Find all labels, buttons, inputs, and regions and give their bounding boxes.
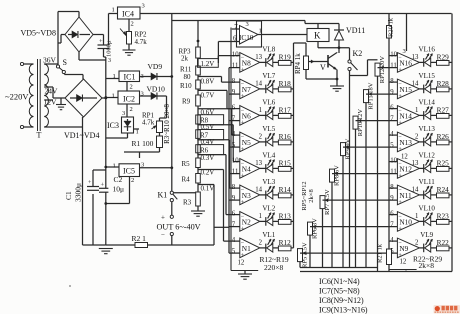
svg-text:5: 5: [390, 142, 394, 149]
svg-text:14: 14: [412, 80, 419, 87]
svg-text:R29: R29: [437, 53, 450, 62]
svg-text:R22: R22: [437, 238, 450, 247]
svg-text:R23: R23: [437, 212, 450, 221]
svg-text:4: 4: [232, 237, 236, 244]
svg-text:12: 12: [400, 259, 407, 266]
svg-text:R28: R28: [437, 79, 450, 88]
svg-text:K1: K1: [158, 191, 168, 200]
svg-text:3: 3: [122, 110, 125, 117]
svg-text:2: 2: [259, 239, 263, 246]
svg-text:VL3: VL3: [262, 178, 275, 186]
svg-text:13: 13: [255, 160, 262, 167]
svg-text:RP11 18V: RP11 18V: [368, 82, 375, 109]
svg-text:4: 4: [232, 131, 236, 138]
svg-text:VL6: VL6: [262, 98, 275, 106]
svg-text:7: 7: [232, 221, 236, 228]
svg-text:R5: R5: [182, 160, 191, 168]
svg-text:5: 5: [232, 142, 236, 149]
svg-text:1: 1: [415, 107, 418, 114]
svg-text:VL5: VL5: [262, 125, 275, 133]
svg-text:−: −: [241, 214, 245, 220]
svg-text:C1: C1: [64, 191, 73, 200]
svg-text:R25: R25: [437, 159, 450, 168]
svg-text:VD11: VD11: [346, 26, 365, 35]
svg-text:R16: R16: [279, 132, 292, 141]
svg-text:VL12: VL12: [419, 151, 436, 159]
svg-text:2: 2: [130, 84, 133, 91]
svg-text:R3: R3: [183, 199, 192, 207]
svg-text:0.1V: 0.1V: [201, 185, 215, 193]
svg-text:R15: R15: [279, 159, 292, 168]
svg-text:0.8V: 0.8V: [201, 78, 215, 86]
svg-text:−: −: [241, 135, 245, 141]
svg-text:RP6 3V: RP6 3V: [312, 218, 319, 239]
svg-text:R19: R19: [279, 53, 292, 62]
svg-text:RP5 2.5V: RP5 2.5V: [302, 242, 309, 268]
svg-text:11: 11: [390, 62, 397, 69]
svg-text:8: 8: [232, 184, 236, 191]
svg-text:IC1: IC1: [124, 73, 136, 82]
svg-text:1: 1: [259, 107, 262, 114]
svg-text:R2 1: R2 1: [132, 234, 147, 243]
svg-text:VL8: VL8: [262, 45, 275, 53]
svg-text:14: 14: [412, 186, 419, 193]
svg-text:R1 100: R1 100: [132, 139, 154, 148]
svg-text:RP12 20V: RP12 20V: [379, 56, 386, 84]
svg-text:K: K: [314, 31, 321, 41]
svg-text:2: 2: [259, 133, 263, 140]
svg-text:IC10: IC10: [239, 34, 254, 42]
svg-text:4.7k: 4.7k: [135, 38, 148, 46]
svg-text:T: T: [37, 131, 42, 140]
svg-text:3: 3: [403, 48, 406, 55]
svg-text:−: −: [241, 55, 245, 61]
svg-text:RP4 1k: RP4 1k: [294, 53, 302, 74]
svg-text:2k×8: 2k×8: [419, 261, 435, 270]
svg-text:14: 14: [255, 186, 262, 193]
svg-text:2: 2: [415, 133, 419, 140]
svg-text:R12: R12: [279, 238, 292, 247]
svg-text:1: 1: [112, 93, 115, 100]
svg-text:2: 2: [131, 21, 134, 28]
svg-text:2: 2: [131, 177, 134, 184]
svg-text:7: 7: [390, 221, 394, 228]
svg-text:+: +: [241, 227, 245, 233]
svg-text:11: 11: [390, 168, 397, 175]
svg-text:+: +: [241, 121, 245, 127]
svg-text:2k×8: 2k×8: [308, 189, 315, 202]
svg-text:+: +: [241, 253, 245, 259]
svg-text:VL16: VL16: [419, 45, 436, 53]
svg-text:0.7V: 0.7V: [201, 92, 215, 100]
svg-text:C2: C2: [114, 175, 123, 184]
svg-text:0.6V: 0.6V: [201, 108, 215, 116]
svg-text:1.2V: 1.2V: [201, 60, 215, 68]
svg-text:R21 1k: R21 1k: [377, 243, 384, 263]
svg-text:VD1~VD4: VD1~VD4: [64, 131, 99, 140]
svg-text:R27: R27: [437, 106, 450, 115]
svg-text:9: 9: [232, 195, 236, 202]
svg-text:VL14: VL14: [419, 98, 436, 106]
svg-text:5: 5: [232, 248, 236, 255]
svg-text:VD5~VD8: VD5~VD8: [21, 29, 56, 38]
svg-text:R3~R10 20×8: R3~R10 20×8: [163, 104, 171, 144]
svg-text:R14: R14: [279, 185, 292, 194]
svg-text:13: 13: [412, 54, 419, 61]
svg-text:6: 6: [232, 211, 236, 218]
svg-text:R4: R4: [182, 176, 191, 184]
svg-text:VL10: VL10: [419, 204, 436, 212]
svg-text:9: 9: [232, 89, 236, 96]
svg-text:RP8 6V: RP8 6V: [334, 165, 341, 186]
svg-text:1: 1: [415, 213, 418, 220]
svg-text:−: −: [241, 108, 245, 114]
svg-text:220×8: 220×8: [264, 263, 283, 272]
svg-text:VL15: VL15: [419, 72, 436, 80]
svg-text:K2: K2: [353, 49, 363, 58]
svg-text:9: 9: [390, 195, 394, 202]
svg-text:1: 1: [113, 73, 116, 80]
svg-text:+: +: [241, 174, 245, 180]
svg-text:2: 2: [130, 106, 133, 113]
svg-text:IC7(N5~N8): IC7(N5~N8): [319, 287, 360, 296]
svg-text:11: 11: [232, 168, 239, 175]
svg-text:12: 12: [238, 260, 245, 267]
svg-text:1: 1: [113, 163, 116, 170]
svg-text:−: −: [241, 82, 245, 88]
svg-text:VD9: VD9: [148, 62, 163, 71]
svg-text:VL11: VL11: [419, 178, 436, 186]
svg-text:1: 1: [112, 7, 115, 14]
svg-text:+: +: [161, 214, 165, 222]
svg-text:+: +: [101, 182, 105, 189]
svg-text:VL7: VL7: [262, 72, 275, 80]
svg-text:4.7k: 4.7k: [142, 119, 155, 127]
svg-text:+: +: [241, 68, 245, 74]
svg-text:8: 8: [232, 78, 236, 85]
svg-text:VL4: VL4: [262, 151, 275, 159]
svg-text:IC8(N9~N12): IC8(N9~N12): [319, 296, 364, 305]
svg-text:VL2: VL2: [262, 204, 275, 212]
svg-text:IC2: IC2: [123, 95, 135, 104]
svg-text:IC3: IC3: [107, 121, 119, 130]
svg-text:7: 7: [390, 115, 394, 122]
svg-text:12: 12: [401, 154, 408, 161]
svg-text:IC4: IC4: [122, 10, 134, 19]
svg-text:7: 7: [234, 24, 238, 31]
svg-text:1: 1: [259, 213, 262, 220]
svg-text:13: 13: [255, 54, 262, 61]
svg-text:80: 80: [184, 73, 192, 81]
svg-text:IC9(N13~N16): IC9(N13~N16): [319, 306, 368, 314]
svg-text:3: 3: [246, 21, 249, 28]
svg-text:9: 9: [390, 89, 394, 96]
svg-text:V: V: [320, 63, 326, 72]
svg-text:S: S: [63, 58, 67, 67]
svg-text:+: +: [241, 94, 245, 100]
svg-text:14: 14: [255, 80, 262, 87]
svg-text:RP5~RP12: RP5~RP12: [301, 181, 308, 210]
svg-text:−: −: [241, 161, 245, 167]
svg-text:+: +: [241, 200, 245, 206]
svg-text:2: 2: [415, 239, 419, 246]
svg-text:R13: R13: [279, 212, 292, 221]
svg-text:−: −: [241, 188, 245, 194]
svg-text:24V: 24V: [45, 87, 59, 96]
svg-text:3: 3: [142, 3, 145, 10]
svg-text:VL9: VL9: [420, 231, 433, 239]
svg-text:+: +: [99, 38, 103, 45]
svg-text:R24: R24: [437, 185, 450, 194]
svg-text:10μ: 10μ: [113, 185, 125, 194]
svg-text:13: 13: [412, 160, 419, 167]
svg-text:10: 10: [232, 158, 239, 165]
svg-text:R26: R26: [437, 132, 450, 141]
svg-text:R10: R10: [180, 82, 192, 90]
svg-text:3: 3: [108, 58, 111, 64]
svg-text:12V: 12V: [44, 98, 58, 107]
svg-text:R18: R18: [279, 79, 292, 88]
svg-text:IC5: IC5: [123, 167, 135, 176]
svg-text:~220V: ~220V: [5, 92, 29, 102]
svg-text:2k: 2k: [181, 55, 189, 63]
svg-text:−: −: [161, 231, 165, 239]
svg-text:1: 1: [259, 28, 262, 35]
svg-text:RP10 12V: RP10 12V: [357, 109, 364, 137]
svg-text:+: +: [241, 147, 245, 153]
svg-text:R9: R9: [182, 98, 191, 106]
svg-text:11: 11: [232, 62, 239, 69]
svg-text:R17: R17: [279, 106, 292, 115]
svg-text:3300μ: 3300μ: [74, 183, 83, 202]
svg-text:VD10: VD10: [147, 85, 166, 94]
svg-text:10: 10: [232, 52, 239, 59]
svg-text:6: 6: [232, 105, 236, 112]
svg-text:RP7 4.5V: RP7 4.5V: [324, 189, 331, 215]
svg-text:VL13: VL13: [419, 125, 436, 133]
svg-text:IC6(N1~N4): IC6(N1~N4): [319, 277, 360, 286]
svg-text:RP9 9V: RP9 9V: [345, 138, 352, 159]
svg-text:R20 1k: R20 1k: [387, 17, 394, 37]
svg-text:36V: 36V: [43, 56, 57, 65]
svg-text:−: −: [241, 241, 245, 247]
svg-text:7: 7: [232, 115, 236, 122]
svg-text:VL1: VL1: [262, 231, 275, 239]
